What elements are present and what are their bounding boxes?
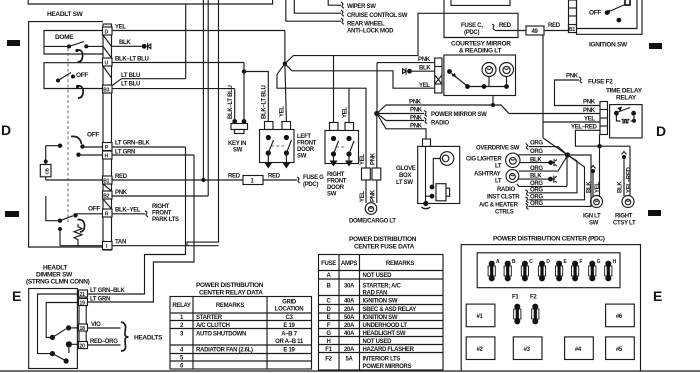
- svg-text:ORG: ORG: [530, 141, 543, 147]
- wire YEL to ign lt sw lamp: [599, 146, 601, 196]
- fuse E: [556, 261, 563, 282]
- svg-text:AUTO SHUTDOWN: AUTO SHUTDOWN: [196, 332, 246, 338]
- svg-text:FUSE C,: FUSE C,: [461, 23, 483, 29]
- glove box top connector stub: [423, 139, 431, 146]
- svg-text:RIGHT: RIGHT: [615, 214, 633, 220]
- svg-text:OFF: OFF: [589, 10, 601, 17]
- svg-text:#2: #2: [477, 347, 484, 353]
- svg-text:20A: 20A: [344, 307, 355, 313]
- svg-text:RAD FAN: RAD FAN: [363, 291, 388, 297]
- svg-text:PNK: PNK: [410, 108, 423, 114]
- svg-text:ASHTRAY: ASHTRAY: [474, 172, 501, 178]
- wire to REAR WHEEL ANTI-LOCK MOD: [286, 0, 341, 21]
- terminal P: [103, 143, 113, 151]
- svg-text:IGNITION SW: IGNITION SW: [363, 315, 398, 321]
- crossed cell U-B3: [103, 66, 112, 78]
- svg-text:PNK: PNK: [566, 74, 579, 80]
- relay TIME DELAY RELAY box: [610, 105, 643, 138]
- key-in switch terminal dots: [232, 119, 237, 124]
- terminal I: [103, 242, 113, 250]
- svg-text:E: E: [12, 288, 21, 304]
- dimmer internal wiring: [38, 294, 80, 354]
- relay output riser: [599, 135, 601, 147]
- svg-text:STARTER; A/C: STARTER; A/C: [363, 284, 402, 290]
- svg-text:30A: 30A: [344, 284, 355, 290]
- wire courtesy feed down to PNK bus: [492, 96, 494, 106]
- svg-text:POWER DISTRIBUTION: POWER DISTRIBUTION: [196, 282, 264, 289]
- right door switch column 2: [346, 136, 351, 141]
- svg-text:C3: C3: [285, 315, 293, 321]
- top bus wire: [28, 0, 272, 4]
- ignition feed elbow: [625, 0, 630, 5]
- crossed cell B2-R: [103, 199, 112, 209]
- svg-text:SW: SW: [297, 154, 307, 160]
- svg-text:D: D: [656, 123, 666, 139]
- wire YEL splice to courtesy mirror: [285, 64, 435, 88]
- svg-text:ANTI–LOCK MOD: ANTI–LOCK MOD: [347, 29, 394, 35]
- component COURTESY MIRROR box: [444, 55, 516, 96]
- wire YEL down to splice: [284, 31, 286, 64]
- wire PNK branch 2 to power mirror sw: [377, 113, 424, 115]
- park switch contacts: [56, 79, 60, 83]
- svg-text:DOOR: DOOR: [297, 147, 315, 153]
- time delay relay connector strip: [600, 102, 608, 135]
- svg-text:PNK: PNK: [583, 100, 596, 106]
- dimmer connector strip: [79, 291, 86, 349]
- connector symbol half-arrow BLK: [403, 68, 406, 75]
- headlight switch connector strip: [103, 24, 112, 250]
- left door switch column 2: [284, 135, 289, 140]
- svg-text:NOT USED: NOT USED: [363, 339, 393, 345]
- svg-text:YEL–RED: YEL–RED: [627, 166, 633, 193]
- left door connector stubs: [265, 122, 274, 130]
- svg-text:NOT USED: NOT USED: [363, 273, 393, 279]
- relay #2 box: [466, 337, 495, 360]
- svg-text:YEL: YEL: [419, 83, 430, 89]
- svg-text:IGNITION SW: IGNITION SW: [363, 299, 398, 305]
- svg-text:F1: F1: [512, 295, 519, 301]
- courtesy reading lamp 1: [482, 63, 496, 77]
- wire BLK ign lamp with connector: [592, 172, 594, 196]
- svg-text:YEL–RED: YEL–RED: [571, 125, 598, 131]
- svg-text:YEL: YEL: [595, 182, 601, 193]
- wire BLK-LT BLU branch to left door switch: [244, 72, 268, 130]
- dome rotary lever arc: [77, 50, 83, 62]
- wire riser C: [187, 0, 219, 246]
- svg-text:LT SW: LT SW: [396, 180, 413, 186]
- lamp IGN LT SW: [591, 196, 603, 208]
- svg-text:LOCATION: LOCATION: [275, 307, 304, 313]
- glove box lamp: [440, 152, 454, 166]
- svg-text:F2: F2: [325, 357, 332, 363]
- svg-text:UNDERHOOD LT: UNDERHOOD LT: [363, 323, 408, 329]
- svg-text:YEL: YEL: [115, 25, 126, 31]
- svg-text:IGN LT: IGN LT: [583, 214, 601, 220]
- svg-text:RELAY: RELAY: [616, 95, 637, 102]
- PDC fuse strip box: [477, 253, 620, 288]
- svg-text:U: U: [105, 61, 109, 67]
- svg-text:SW: SW: [327, 192, 337, 198]
- wire PNK branch 1 to relay bus: [377, 105, 600, 114]
- svg-text:B1: B1: [569, 27, 575, 33]
- crossed cells D-U: [103, 35, 112, 47]
- svg-text:REMARKS: REMARKS: [386, 261, 415, 267]
- wire LT BLU riser to top bus: [185, 4, 187, 79]
- svg-text:INST CLSTR: INST CLSTR: [487, 194, 520, 200]
- dimmer terminal 20: [79, 342, 88, 349]
- connector KEY IN SW: [231, 124, 248, 130]
- glove box switch contacts: [430, 185, 435, 190]
- svg-text:HEADLIGHT SW: HEADLIGHT SW: [363, 331, 406, 337]
- svg-text:#5: #5: [616, 347, 623, 353]
- wire PNK feed down from courtesy elbow: [376, 63, 378, 114]
- svg-text:FRONT: FRONT: [297, 141, 317, 147]
- svg-text:C: C: [529, 259, 533, 265]
- fuse A: [488, 261, 495, 282]
- svg-text:D: D: [546, 259, 550, 265]
- svg-text:INTERIOR LTS: INTERIOR LTS: [363, 357, 401, 363]
- wire PNK down to dome connector: [376, 114, 378, 169]
- svg-text:RED: RED: [268, 174, 281, 180]
- wire BLK-LT BLU elbow down: [243, 63, 245, 122]
- svg-text:YEL: YEL: [343, 107, 349, 118]
- svg-text:CRUISE CONTROL SW: CRUISE CONTROL SW: [347, 13, 408, 19]
- relay coil: [616, 116, 620, 122]
- splice node BLK-LT BLU: [242, 69, 246, 73]
- svg-text:PNK: PNK: [370, 189, 376, 202]
- wire riser A: [202, 0, 204, 180]
- svg-text:FUSE G: FUSE G: [303, 175, 324, 181]
- svg-text:TIME DELAY: TIME DELAY: [606, 88, 643, 95]
- lamp RIGHT CTSY LT: [622, 196, 634, 208]
- right door switch grounds: [333, 154, 335, 161]
- svg-text:RED–ORG: RED–ORG: [90, 339, 118, 345]
- svg-text:50A: 50A: [344, 315, 355, 321]
- svg-text:G: G: [326, 331, 331, 337]
- svg-text:LEFT: LEFT: [297, 134, 311, 140]
- glove box internal wiring: [425, 146, 427, 203]
- wire CB to B1 RED: [46, 179, 103, 181]
- svg-text:RELAY: RELAY: [172, 303, 191, 309]
- left door switch column 1: [266, 135, 271, 140]
- svg-text:PNK: PNK: [370, 152, 376, 165]
- crossed cell B1-B2: [103, 184, 112, 191]
- svg-text:BLK: BLK: [419, 66, 431, 72]
- terminal B2: [103, 191, 113, 199]
- dimmer terminal 21: [79, 290, 88, 297]
- svg-text:POWER MIRRORS: POWER MIRRORS: [363, 364, 412, 370]
- svg-text:A/C CLUTCH: A/C CLUTCH: [196, 323, 230, 329]
- grid tick left lower: [5, 211, 19, 217]
- terminal B1: [103, 176, 113, 184]
- left door switch grounds: [267, 153, 269, 163]
- svg-text:BLK–LT BLU: BLK–LT BLU: [262, 85, 268, 119]
- svg-text:REMARKS: REMARKS: [216, 303, 245, 309]
- relay internal switch: [614, 111, 619, 116]
- fuse B: [504, 261, 511, 282]
- circuit breaker CB: [45, 146, 47, 165]
- svg-text:LT GRN–BLK: LT GRN–BLK: [90, 288, 126, 294]
- svg-text:ORG: ORG: [530, 149, 543, 155]
- switch HEADLT DIMMER SW box: [29, 289, 78, 369]
- grid tick left upper: [7, 40, 20, 46]
- dimmer switch contacts: [50, 335, 55, 340]
- svg-text:#6: #6: [616, 314, 623, 320]
- svg-text:SW: SW: [589, 221, 599, 227]
- splice node ORG: [565, 152, 570, 157]
- terminal R: [103, 209, 113, 217]
- wire PNK branch 3 to radio: [377, 114, 424, 121]
- svg-text:BLK–LT BLU: BLK–LT BLU: [228, 85, 234, 119]
- park rotary lever arc: [77, 86, 83, 98]
- svg-text:FUSE: FUSE: [321, 261, 336, 267]
- grid tick right upper: [649, 43, 662, 49]
- svg-text:BLK: BLK: [618, 181, 624, 193]
- head switch contacts: [58, 144, 62, 148]
- dome switch contacts: [67, 44, 71, 48]
- svg-text:R: R: [105, 212, 109, 218]
- fuse H: [605, 261, 612, 282]
- svg-text:20: 20: [80, 344, 86, 350]
- relay data table: [170, 297, 312, 370]
- svg-text:AMPS: AMPS: [341, 261, 357, 267]
- svg-text:KEY IN: KEY IN: [228, 141, 246, 147]
- svg-text:POWER DISTRIBUTION CENTER (PDC: POWER DISTRIBUTION CENTER (PDC): [493, 236, 605, 243]
- wire to WIPER SW: [328, 0, 341, 5]
- relay #6 box: [606, 304, 635, 327]
- H contact feed: [76, 153, 80, 157]
- svg-text:18: 18: [80, 326, 86, 332]
- svg-text:PNK: PNK: [115, 190, 128, 196]
- dashed mechanical link: [67, 48, 69, 222]
- svg-text:YEL: YEL: [360, 191, 366, 202]
- svg-text:STARTER: STARTER: [196, 315, 223, 321]
- svg-text:RADIO: RADIO: [431, 121, 449, 127]
- headlight switch lower sub-box: [44, 63, 103, 89]
- svg-text:PARK LTS: PARK LTS: [152, 217, 179, 223]
- svg-text:#4: #4: [575, 347, 582, 353]
- svg-text:YEL: YEL: [280, 106, 286, 117]
- svg-text:RADIO: RADIO: [497, 187, 515, 193]
- rheostat resistor: [74, 224, 82, 246]
- svg-text:CENTER FUSE DATA: CENTER FUSE DATA: [354, 244, 415, 251]
- dimmer feed node: [58, 227, 62, 231]
- svg-text:A/C & HEATER: A/C & HEATER: [479, 202, 519, 208]
- svg-text:RIGHT: RIGHT: [152, 204, 170, 210]
- svg-text:PNK: PNK: [583, 108, 596, 114]
- headlight switch outer box: [29, 22, 103, 247]
- svg-text:PNK: PNK: [410, 124, 423, 130]
- svg-text:B1: B1: [103, 179, 109, 185]
- headlight switch DOME sub-box: [44, 31, 103, 55]
- relay #3 box: [513, 337, 542, 360]
- lamp DOME/CARGO LT: [365, 203, 377, 215]
- svg-text:& READING LT: & READING LT: [459, 48, 501, 55]
- svg-text:RADIATOR FAN (2.6L): RADIATOR FAN (2.6L): [196, 348, 253, 354]
- dimmer terminal 18: [79, 324, 88, 331]
- svg-text:OFF: OFF: [76, 72, 88, 79]
- feed wires right door switch: [333, 56, 335, 123]
- courtesy internal switch: [447, 69, 452, 74]
- fuse G: [589, 261, 596, 282]
- svg-text:40A: 40A: [344, 299, 355, 305]
- svg-text:OR A–B 11: OR A–B 11: [275, 339, 304, 345]
- svg-text:PNK: PNK: [409, 100, 422, 106]
- svg-text:5A: 5A: [345, 357, 353, 363]
- svg-text:VIO: VIO: [91, 322, 101, 328]
- wire YEL ignition feed riser: [542, 35, 544, 138]
- right door switch column 1: [331, 136, 336, 141]
- svg-text:DIMMER SW: DIMMER SW: [36, 272, 73, 279]
- grid tick right lower: [648, 210, 661, 216]
- terminal U: [103, 58, 113, 66]
- svg-text:GLOVE: GLOVE: [396, 166, 416, 172]
- svg-text:TAN: TAN: [115, 240, 126, 246]
- wire YEL splice to dome/cargo: [277, 64, 366, 168]
- svg-text:LT BLU: LT BLU: [121, 82, 140, 88]
- wire BLK right ctsy with connector: [623, 158, 625, 196]
- svg-text:(STRNG CLMN CONN): (STRNG CLMN CONN): [26, 279, 90, 286]
- ignition switch contacts: [605, 10, 610, 15]
- svg-text:BLK: BLK: [587, 181, 593, 193]
- svg-text:#1: #1: [477, 314, 484, 320]
- svg-text:B3: B3: [103, 88, 109, 94]
- svg-text:20A: 20A: [344, 323, 355, 329]
- svg-text:F1: F1: [325, 347, 332, 353]
- svg-text:OFF: OFF: [88, 206, 100, 213]
- wire ORG bus diagonal to splice: [543, 138, 568, 155]
- lower switch contacts: [58, 219, 62, 223]
- svg-text:#3: #3: [524, 347, 531, 353]
- svg-text:LT GRN–BLK: LT GRN–BLK: [115, 141, 151, 147]
- svg-text:(PDC): (PDC): [464, 30, 479, 36]
- svg-text:DOME: DOME: [55, 34, 74, 41]
- svg-text:19: 19: [80, 301, 86, 307]
- svg-text:D: D: [1, 122, 11, 138]
- svg-text:E: E: [327, 315, 331, 321]
- svg-text:A–B 7: A–B 7: [281, 332, 297, 338]
- courtesy reading lamp 2: [500, 63, 514, 77]
- switch LEFT FRONT DOOR SW box: [260, 130, 295, 163]
- splice node YEL: [283, 62, 287, 66]
- brace to HEADLTS: [121, 322, 129, 351]
- svg-text:A: A: [496, 259, 500, 265]
- svg-text:LT GRN: LT GRN: [90, 297, 110, 303]
- terminal D: [103, 27, 113, 35]
- svg-text:CTSY LT: CTSY LT: [613, 221, 636, 227]
- svg-text:RIGHT: RIGHT: [327, 172, 345, 178]
- glove box ground node: [423, 201, 428, 206]
- svg-text:SBEC & ASD RELAY: SBEC & ASD RELAY: [363, 307, 417, 313]
- svg-text:E 19: E 19: [283, 348, 295, 354]
- wire staircase LT GRN-BLK to dimmer 21: [87, 147, 186, 294]
- switch RIGHT FRONT DOOR SW box: [325, 131, 359, 164]
- svg-text:20A: 20A: [344, 347, 355, 353]
- svg-text:OFF: OFF: [87, 132, 99, 139]
- splice 1 box: [243, 176, 263, 185]
- svg-text:40A: 40A: [344, 331, 355, 337]
- switch IGNITION SW box: [577, 0, 643, 34]
- PDC outer box: [461, 245, 640, 371]
- svg-text:CIG LIGHTER: CIG LIGHTER: [466, 157, 502, 163]
- svg-text:G: G: [597, 259, 601, 265]
- svg-text:OVERDRIVE SW: OVERDRIVE SW: [476, 145, 520, 151]
- svg-text:H: H: [326, 339, 330, 345]
- wire YEL loop around fuse C label: [285, 0, 518, 64]
- svg-text:HEADLT: HEADLT: [43, 265, 67, 272]
- svg-text:E 19: E 19: [283, 323, 295, 329]
- svg-text:49: 49: [532, 29, 539, 35]
- svg-text:COURTESY MIRROR: COURTESY MIRROR: [451, 41, 511, 48]
- svg-text:H: H: [105, 154, 109, 160]
- switch GLOVE BOX LT SW box: [418, 146, 460, 203]
- svg-text:BLK: BLK: [119, 40, 131, 46]
- svg-text:DOME/CARGO LT: DOME/CARGO LT: [349, 219, 396, 225]
- wire LT BLU 2 down to key-in switch: [234, 89, 236, 122]
- right door connector stubs: [330, 123, 339, 131]
- wire PNK branch 4 to glove box: [377, 114, 426, 140]
- svg-text:RED: RED: [548, 23, 561, 29]
- lower rotary lever arc: [78, 219, 85, 232]
- svg-text:RED: RED: [228, 174, 241, 180]
- svg-text:DOOR: DOOR: [327, 185, 345, 191]
- svg-text:B: B: [512, 259, 516, 265]
- svg-text:LT BLU: LT BLU: [121, 73, 140, 79]
- svg-text:B2: B2: [103, 194, 109, 200]
- svg-text:D: D: [105, 30, 109, 36]
- relay #5 box: [606, 337, 635, 360]
- svg-text:FRONT: FRONT: [152, 211, 172, 217]
- svg-text:FUSE F2: FUSE F2: [588, 79, 613, 86]
- svg-text:CTRLS: CTRLS: [495, 209, 514, 215]
- svg-text:HAZARD FLASHER: HAZARD FLASHER: [363, 347, 415, 353]
- svg-text:SW: SW: [233, 148, 243, 154]
- splice node PNK: [374, 111, 379, 116]
- wire YEL splice to door switch: [285, 64, 287, 122]
- wire YEL-RED to right ctsy lamp: [629, 146, 631, 196]
- svg-text:CB: CB: [44, 167, 49, 174]
- svg-text:CENTER RELAY DATA: CENTER RELAY DATA: [199, 290, 263, 297]
- svg-text:F: F: [579, 259, 582, 265]
- fuse D: [538, 261, 545, 282]
- wire to CRUISE CONTROL SW: [294, 0, 341, 13]
- svg-text:H: H: [613, 259, 617, 265]
- svg-text:LT: LT: [495, 164, 502, 170]
- svg-text:WIPER SW: WIPER SW: [347, 4, 376, 10]
- svg-text:(PDC): (PDC): [303, 182, 318, 188]
- fuse C: [521, 261, 528, 282]
- fuse data table: [319, 255, 444, 371]
- svg-text:POWER MIRROR SW: POWER MIRROR SW: [431, 112, 487, 118]
- relay #1 box: [466, 304, 495, 327]
- svg-text:BLK–YEL: BLK–YEL: [115, 208, 141, 214]
- dimmer terminal 19: [79, 299, 88, 306]
- svg-text:IGNITION SW: IGNITION SW: [589, 42, 628, 49]
- terminal H: [103, 151, 113, 159]
- svg-text:RED: RED: [115, 174, 128, 180]
- terminal B3: [103, 85, 113, 93]
- svg-text:F2: F2: [530, 295, 537, 301]
- svg-text:HEADLTS: HEADLTS: [134, 335, 163, 342]
- svg-text:21: 21: [80, 292, 86, 298]
- svg-text:HEADLT SW: HEADLT SW: [47, 11, 84, 18]
- node on RED wire: [201, 178, 205, 182]
- svg-text:YEL: YEL: [360, 154, 366, 165]
- page bottom border: [0, 370, 700, 372]
- relay #4 box: [565, 337, 594, 360]
- svg-text:RED: RED: [499, 23, 512, 29]
- svg-text:BLK–LT BLU: BLK–LT BLU: [115, 57, 149, 63]
